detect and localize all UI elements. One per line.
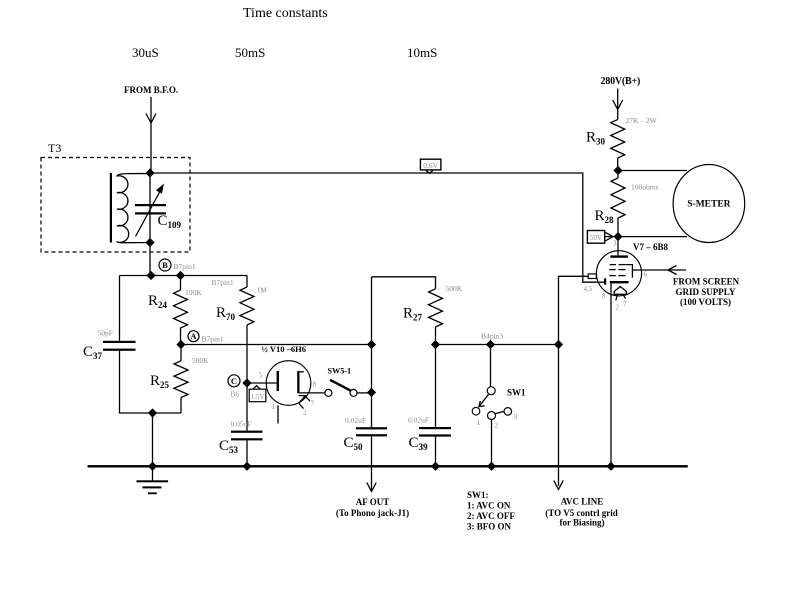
tube V10 diode plates small <box>299 396 306 404</box>
meter S-METER <box>673 165 745 243</box>
wire C37 bottom to R25 bottom <box>120 351 182 413</box>
wire pins45 to AVC <box>559 275 589 277</box>
wire junction to S-meter bottom <box>618 236 687 238</box>
svg-text:B7pin1: B7pin1 <box>202 335 224 344</box>
svg-text:10mS: 10mS <box>407 45 437 60</box>
capacitor C109 variable arrow <box>136 189 162 237</box>
node B circle <box>159 259 171 271</box>
transformer T3 core <box>110 173 112 243</box>
svg-text:1: 1 <box>477 418 481 427</box>
callout 1.5V <box>253 386 260 390</box>
switch SW1 contact 3 <box>504 408 512 416</box>
wire from BFO down to T3 <box>150 97 152 173</box>
svg-text:V7 – 6B8: V7 – 6B8 <box>633 242 669 252</box>
node junction mid wire end <box>367 340 376 349</box>
svg-text:8: 8 <box>313 381 317 389</box>
svg-text:B7pin1: B7pin1 <box>174 262 196 271</box>
svg-text:1M: 1M <box>257 286 268 295</box>
svg-text:0.02uF: 0.02uF <box>408 416 429 425</box>
svg-text:C: C <box>231 376 237 386</box>
tube V10 pin 1 wire <box>277 405 279 423</box>
arrowhead AF OUT <box>367 483 376 492</box>
tube V7 cathode bar vertical <box>604 278 606 284</box>
svg-text:100ohms: 100ohms <box>631 183 659 192</box>
tube V7 plate wire pin 6 <box>632 269 686 271</box>
svg-text:(100 VOLTS): (100 VOLTS) <box>680 297 731 307</box>
svg-text:2: 2 <box>616 304 620 312</box>
switch SW1 blade 2-3 <box>495 411 504 413</box>
wire C39 bottom <box>435 437 437 467</box>
tube V7 cathode bar horizontal <box>610 281 629 283</box>
node junction R30/R28 <box>613 166 622 175</box>
svg-text:3: BFO ON: 3: BFO ON <box>467 522 511 532</box>
wire SW5-1 to junction <box>357 392 372 394</box>
tube V7 envelope <box>596 251 641 296</box>
ground symbol <box>152 466 154 481</box>
tube V10 diode plate left bar <box>277 371 279 391</box>
resistor R30 <box>611 120 625 159</box>
svg-text:AF OUT: AF OUT <box>356 497 389 507</box>
switch SW5-1 blade <box>330 380 351 391</box>
switch SW1 contact 2 <box>488 412 496 420</box>
svg-text:S-METER: S-METER <box>687 200 730 210</box>
switch SW5-1 contact left <box>325 389 332 396</box>
switch SW1 pole circle <box>487 387 495 395</box>
svg-text:B: B <box>162 260 168 270</box>
resistor R28 <box>617 171 619 179</box>
svg-text:1: 1 <box>272 403 276 411</box>
switch SW1 blade with arrow <box>480 395 489 406</box>
node junction bus x611 <box>606 462 615 471</box>
svg-text:8: 8 <box>602 293 606 301</box>
capacitor C50 plates <box>356 427 387 429</box>
wire SW1 pole drop <box>490 345 492 387</box>
svg-text:2: 2 <box>303 409 307 417</box>
arrowhead AVC <box>554 481 563 490</box>
node junction SW5/C50 <box>367 388 376 397</box>
svg-text:4,5: 4,5 <box>584 285 593 293</box>
node junction R28 bottom <box>613 232 622 241</box>
svg-text:FROM SCREEN: FROM SCREEN <box>673 277 740 287</box>
svg-text:FROM B.F.O.: FROM B.F.O. <box>124 85 178 95</box>
tube V7 pins 4,5 box <box>588 274 596 279</box>
node junction tube pin5 <box>242 378 251 387</box>
svg-text:GRID SUPPLY: GRID SUPPLY <box>676 287 736 297</box>
svg-text:B7pin1: B7pin1 <box>212 278 234 287</box>
svg-text:500K: 500K <box>192 356 209 365</box>
node C circle <box>228 375 240 387</box>
svg-text:2: 2 <box>495 421 499 430</box>
svg-text:500K: 500K <box>446 284 463 293</box>
wire mid AVC left <box>181 344 372 346</box>
node junction T3 top <box>145 168 154 177</box>
node junction T3 bottom <box>145 238 154 247</box>
svg-text:B4pin3: B4pin3 <box>481 332 503 341</box>
wire C53 bottom <box>246 440 248 466</box>
svg-text:T3: T3 <box>48 141 61 155</box>
svg-text:1: AVC ON: 1: AVC ON <box>467 501 511 511</box>
wire mid AVC right <box>436 344 559 346</box>
capacitor C53 plates <box>231 431 263 433</box>
ground bus <box>88 465 688 467</box>
switch SW5-1 contact right <box>350 389 357 396</box>
svg-text:Time constants: Time constants <box>243 6 328 21</box>
arrowhead from screen grid <box>668 266 677 275</box>
node A circle <box>188 331 199 342</box>
node junction R27 bottom <box>431 340 440 349</box>
capacitor C39 plates <box>419 427 451 429</box>
capacitor C37 drop wire <box>119 276 121 341</box>
wire V7 cathode to bus <box>610 283 612 466</box>
svg-text:SW1:: SW1: <box>467 490 489 500</box>
svg-text:50pF: 50pF <box>98 329 113 338</box>
transformer T3 coil <box>117 174 150 243</box>
svg-text:7: 7 <box>311 400 315 408</box>
wire bus node B horizontal <box>120 275 248 277</box>
svg-text:A: A <box>190 331 197 341</box>
wire R27 top elbow <box>372 277 436 289</box>
capacitor C109 plates <box>135 204 166 206</box>
node junction C37/R25 bottom <box>148 408 157 417</box>
node junction bus x435.5 <box>431 462 440 471</box>
svg-text:1.5V: 1.5V <box>251 393 265 401</box>
wire vertical SW5/C50 column <box>371 277 373 393</box>
transformer T3 dashed box <box>41 158 190 253</box>
svg-text:100K: 100K <box>185 288 202 297</box>
svg-text:for Biasing): for Biasing) <box>559 518 604 528</box>
svg-text:7: 7 <box>623 301 627 309</box>
callout 0.6V <box>420 159 441 170</box>
wire B+ down <box>617 89 619 120</box>
svg-text:(TO V5 contrl grid: (TO V5 contrl grid <box>545 508 617 518</box>
svg-text:½ V10 –6H6: ½ V10 –6H6 <box>262 344 306 354</box>
callout 50V <box>587 231 604 244</box>
svg-text:27K – 2W: 27K – 2W <box>626 116 658 125</box>
svg-text:SW5-1: SW5-1 <box>328 367 352 376</box>
svg-text:6: 6 <box>644 271 648 279</box>
capacitor C37 plates <box>103 341 136 343</box>
svg-text:0.6V: 0.6V <box>423 161 438 170</box>
svg-text:3: 3 <box>613 240 617 248</box>
tube V7 diode plates pentagon <box>614 287 626 295</box>
tube V7 grid dashes <box>609 265 625 276</box>
resistor R27 <box>429 289 443 327</box>
wire AVC line vertical <box>558 276 560 486</box>
svg-text:3: 3 <box>514 412 518 421</box>
resistor R25 <box>180 345 182 361</box>
resistor R70 <box>246 276 248 288</box>
tube V10 envelope <box>266 361 311 406</box>
svg-text:30uS: 30uS <box>132 45 159 60</box>
svg-text:SW1: SW1 <box>507 388 526 398</box>
node junction SW1 tap <box>486 340 495 349</box>
wire long grid wire to V7 <box>150 173 605 282</box>
svg-text:AVC LINE: AVC LINE <box>561 497 604 507</box>
node junction A <box>176 340 185 349</box>
resistor R24 <box>180 276 182 291</box>
svg-text:0.02uF: 0.02uF <box>345 416 366 425</box>
tube V7 top cap wire <box>617 241 619 256</box>
svg-text:(To Phono jack-J1): (To Phono jack-J1) <box>336 508 409 518</box>
wire SW1 contact2 to bus <box>491 420 493 467</box>
node junction R24 top <box>176 271 185 280</box>
tube V7 plate bracket <box>626 265 633 278</box>
svg-text:0.05uF: 0.05uF <box>231 420 252 429</box>
svg-text:2: AVC OFF: 2: AVC OFF <box>467 511 515 521</box>
node junction AVC line <box>554 340 563 349</box>
arrowhead B+ <box>613 100 623 110</box>
node junction bus x247 <box>242 462 251 471</box>
switch SW1 contact 1 <box>472 407 480 415</box>
pin leaders 2 7 <box>616 294 618 300</box>
svg-text:50V: 50V <box>590 234 602 242</box>
capacitor C39 wire top <box>435 345 437 428</box>
svg-text:50mS: 50mS <box>235 45 265 60</box>
wire pin5 to tube <box>247 382 277 384</box>
tube V10 cathode bracket <box>297 371 299 393</box>
svg-text:B6: B6 <box>231 390 240 399</box>
tube V7 top cap bar <box>610 255 628 257</box>
svg-text:280V(B+): 280V(B+) <box>601 76 641 87</box>
node junction bus x491.5 <box>487 462 496 471</box>
svg-text:5: 5 <box>259 372 263 380</box>
arrowhead BFO <box>146 114 156 124</box>
wire ground drop <box>152 413 154 466</box>
node junction wire-B at x151 <box>146 271 155 280</box>
wire junction to S-meter top <box>618 170 687 172</box>
wire T3 vertical through C109 <box>149 173 151 276</box>
node junction bus x152.5 <box>148 462 157 471</box>
capacitor C50 wire top <box>371 393 373 428</box>
wire C50 to AF OUT <box>371 436 373 491</box>
